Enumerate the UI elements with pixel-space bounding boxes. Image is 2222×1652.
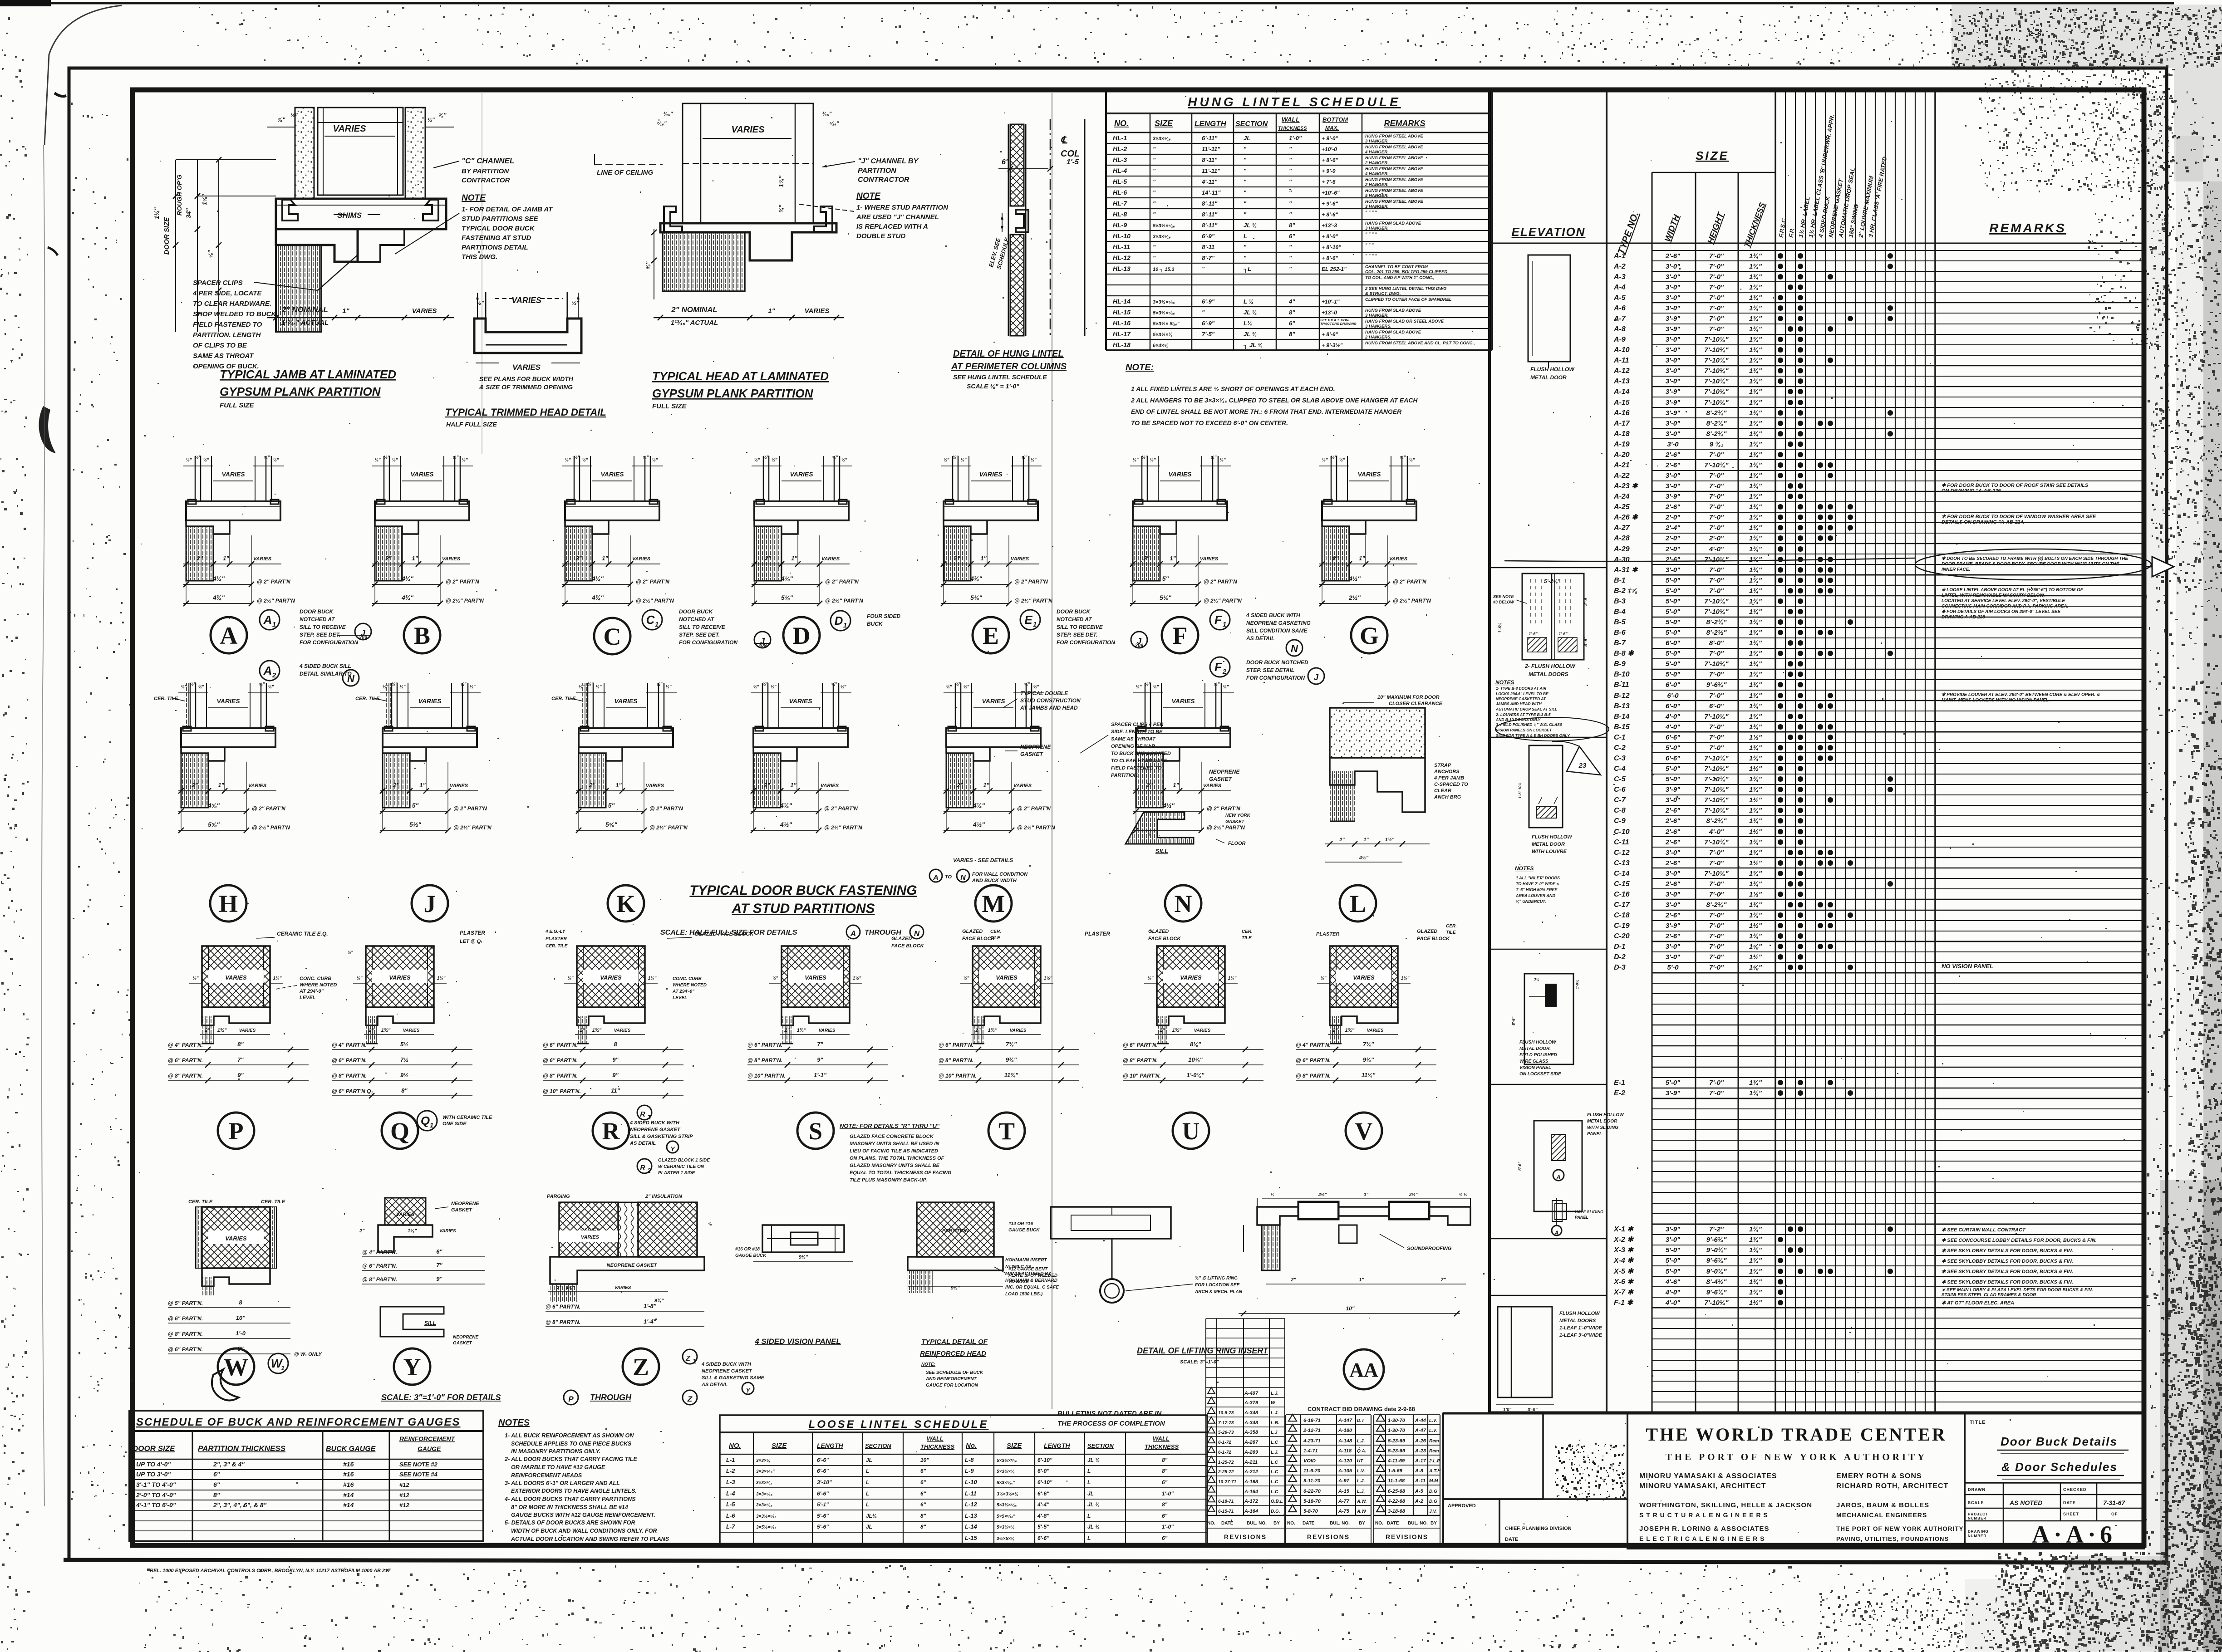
svg-text:Y: Y xyxy=(670,1145,675,1152)
svg-text:A-31 ✱: A-31 ✱ xyxy=(1613,566,1638,574)
svg-text:DETAILS ON DRAWING "A-AB-224.: DETAILS ON DRAWING "A-AB-224. xyxy=(1942,520,2025,525)
svg-text:VARIES: VARIES xyxy=(1194,1028,1211,1033)
svg-text:✱ FOR DOOR BUCK TO DOOR OF ROO: ✱ FOR DOOR BUCK TO DOOR OF ROOF STAIR SE… xyxy=(1942,483,2089,488)
svg-text:½": ½" xyxy=(392,458,398,463)
svg-text:DATE: DATE xyxy=(1303,1521,1315,1526)
svg-text:1": 1" xyxy=(602,555,608,562)
svg-text:T: T xyxy=(998,1118,1015,1145)
svg-text:E: E xyxy=(983,622,999,649)
svg-text:CER. TILE: CER. TILE xyxy=(261,1199,285,1205)
svg-text:METAL DOORS: METAL DOORS xyxy=(1559,1318,1596,1324)
svg-text:VISION PANEL: VISION PANEL xyxy=(1519,1065,1551,1070)
svg-text:½": ½" xyxy=(348,950,354,955)
svg-text:INC. OR EQUAL. C SAFE: INC. OR EQUAL. C SAFE xyxy=(1005,1285,1059,1290)
svg-text:¾" UNDERCUT.: ¾" UNDERCUT. xyxy=(1516,899,1546,904)
svg-text:½": ½" xyxy=(374,458,380,463)
svg-text:CERAMIC TILE E.Q.: CERAMIC TILE E.Q. xyxy=(277,931,328,937)
svg-text:4¼": 4¼" xyxy=(780,802,792,809)
svg-text:1": 1" xyxy=(1173,782,1179,789)
svg-text:8": 8" xyxy=(237,1041,244,1048)
svg-text:7'-0": 7'-0" xyxy=(1709,325,1724,333)
svg-text:Y: Y xyxy=(746,1387,751,1394)
svg-text:1¾": 1¾" xyxy=(592,1028,602,1033)
svg-text:COL: COL xyxy=(1061,149,1080,159)
svg-text:5×3½×¾: 5×3½×¾ xyxy=(1153,332,1172,338)
svg-text:1¾": 1¾" xyxy=(1749,1268,1762,1275)
svg-text:1¾": 1¾" xyxy=(1749,577,1762,584)
svg-text:⅝": ⅝" xyxy=(1024,682,1030,687)
svg-text:NOTES: NOTES xyxy=(1515,865,1534,872)
svg-text:A-118: A-118 xyxy=(1338,1448,1352,1454)
svg-text:1¾": 1¾" xyxy=(1749,681,1762,689)
svg-text:NOTE: FOR DETAILS "R" THRU "U: NOTE: FOR DETAILS "R" THRU "U" xyxy=(840,1123,940,1129)
svg-text:8": 8" xyxy=(1289,222,1295,229)
svg-text:½": ½" xyxy=(190,682,196,687)
svg-text:7'-10¼": 7'-10¼" xyxy=(1704,367,1729,375)
svg-text:SOUNDPROOFING: SOUNDPROOFING xyxy=(1407,1246,1452,1251)
svg-text:4 PER SIDE, LOCATE: 4 PER SIDE, LOCATE xyxy=(192,289,262,297)
svg-text:NEOPRENE: NEOPRENE xyxy=(451,1201,479,1206)
svg-text:5'-0": 5'-0" xyxy=(1666,671,1681,678)
svg-text:EMERY ROTH & SONS: EMERY ROTH & SONS xyxy=(1836,1472,1922,1480)
svg-text:CHIEF, PLANNING DIVISION: CHIEF, PLANNING DIVISION xyxy=(1505,1526,1572,1531)
svg-text:½": ½" xyxy=(1030,458,1036,463)
svg-text:FIELD FASTENED TO: FIELD FASTENED TO xyxy=(1111,765,1162,771)
svg-text:DOOR SIZE: DOOR SIZE xyxy=(133,1444,175,1453)
svg-text:5'-1": 5'-1" xyxy=(817,1501,829,1508)
svg-text:5'-6": 5'-6" xyxy=(817,1513,829,1519)
svg-text:2- LOUVERS AT TYPE B-3 B-5: 2- LOUVERS AT TYPE B-3 B-5 xyxy=(1495,712,1551,717)
svg-text:½": ½" xyxy=(587,682,593,687)
svg-text:3 HANGER.: 3 HANGER. xyxy=(1365,204,1389,209)
svg-text:6": 6" xyxy=(920,1490,926,1497)
svg-text:1¾": 1¾" xyxy=(1749,807,1762,814)
svg-text:8⅛": 8⅛" xyxy=(1190,1041,1201,1048)
svg-text:PLASTER 1 SIDE: PLASTER 1 SIDE xyxy=(658,1171,695,1176)
svg-text:THE PROCESS OF COMPLETION: THE PROCESS OF COMPLETION xyxy=(1057,1420,1165,1427)
svg-text:1¾": 1¾" xyxy=(1749,775,1762,783)
svg-text:1¾": 1¾" xyxy=(1749,1278,1762,1286)
svg-text:@ 2½" PART'N: @ 2½" PART'N xyxy=(446,598,484,604)
svg-text:JL ¼: JL ¼ xyxy=(1087,1457,1100,1463)
svg-text:1¹³⁄₁₆" ACTUAL: 1¹³⁄₁₆" ACTUAL xyxy=(671,319,718,327)
svg-text:@ 2½" PART'N: @ 2½" PART'N xyxy=(1017,824,1055,831)
svg-text:5'-0": 5'-0" xyxy=(1666,598,1681,605)
svg-text:GAUGE BUCK: GAUGE BUCK xyxy=(735,1253,767,1258)
svg-text:½": ½" xyxy=(770,685,776,690)
svg-text:1¾": 1¾" xyxy=(1749,1289,1762,1296)
svg-text:1'-5: 1'-5 xyxy=(1067,158,1079,166)
svg-text:@ 2½" PART'N: @ 2½" PART'N xyxy=(649,824,688,831)
svg-text:3'-0": 3'-0" xyxy=(1666,472,1681,480)
svg-text:7'-0": 7'-0" xyxy=(1709,252,1724,260)
svg-text:AT PERIMETER COLUMNS: AT PERIMETER COLUMNS xyxy=(951,362,1067,372)
svg-text:1½": 1½" xyxy=(853,976,861,981)
svg-text:C-5: C-5 xyxy=(1614,775,1626,783)
svg-text:N: N xyxy=(347,673,355,684)
svg-text:1- TYPE B-8 DOORS AT AIR: 1- TYPE B-8 DOORS AT AIR xyxy=(1496,686,1547,691)
svg-text:A-379: A-379 xyxy=(1244,1400,1258,1406)
svg-text:FULL SIZE: FULL SIZE xyxy=(220,402,255,409)
svg-text:C: C xyxy=(646,613,655,627)
svg-text:4'-4": 4'-4" xyxy=(1037,1501,1049,1508)
svg-text:SEE HUNG LINTEL SCHEDULE: SEE HUNG LINTEL SCHEDULE xyxy=(953,373,1047,381)
svg-text:½": ½" xyxy=(963,976,969,981)
svg-text:3½×3½×¼: 3½×3½×¼ xyxy=(997,1492,1018,1497)
svg-text:JOSEPH R. LORING & ASSOCIATES: JOSEPH R. LORING & ASSOCIATES xyxy=(1639,1525,1770,1533)
svg-text:2 HANGER.: 2 HANGER. xyxy=(1365,182,1389,187)
svg-text:WHERE NOTED: WHERE NOTED xyxy=(673,983,707,988)
svg-text:5'-0": 5'-0" xyxy=(1666,744,1681,752)
svg-text:1¾": 1¾" xyxy=(1749,284,1762,291)
svg-text:A-3: A-3 xyxy=(1613,273,1626,281)
svg-text:5×3×⁵⁄₁₆": 5×3×⁵⁄₁₆" xyxy=(997,1480,1015,1485)
svg-text:BULLETINS NOT DATED ARE IN: BULLETINS NOT DATED ARE IN xyxy=(1057,1410,1162,1417)
svg-text:A-17: A-17 xyxy=(1415,1458,1426,1464)
svg-text:3'-0": 3'-0" xyxy=(1666,263,1681,270)
svg-text:7'-0": 7'-0" xyxy=(1709,472,1724,480)
svg-text:NO.: NO. xyxy=(1114,119,1129,128)
svg-text:7'-0": 7'-0" xyxy=(1709,263,1724,270)
svg-text:JL ¼: JL ¼ xyxy=(1087,1524,1100,1530)
svg-text:½: ½ xyxy=(1271,1192,1274,1197)
svg-text:STEP. SEE DETAIL: STEP. SEE DETAIL xyxy=(1246,667,1294,673)
svg-text:6'-11": 6'-11" xyxy=(1202,135,1218,142)
svg-text:HALF FULL SIZE: HALF FULL SIZE xyxy=(446,421,497,428)
svg-text:REVISIONS: REVISIONS xyxy=(1386,1533,1428,1540)
svg-text:½": ½" xyxy=(1219,458,1225,463)
svg-text:DOOR BUCK: DOOR BUCK xyxy=(679,608,713,615)
svg-text:A-19: A-19 xyxy=(1613,441,1630,448)
svg-text:3 HANGER.: 3 HANGER. xyxy=(1365,226,1389,231)
svg-text:6'-10": 6'-10" xyxy=(1037,1479,1052,1485)
svg-text:8": 8" xyxy=(1162,1501,1168,1508)
svg-text:2 HANGER.: 2 HANGER. xyxy=(1365,161,1389,166)
svg-text:1- FOR DETAIL OF JAMB AT: 1- FOR DETAIL OF JAMB AT xyxy=(462,206,553,213)
svg-text:FACE BLOCK: FACE BLOCK xyxy=(891,943,924,949)
svg-text:A-172: A-172 xyxy=(1244,1499,1258,1504)
svg-text:A-30: A-30 xyxy=(1613,556,1630,564)
svg-text:L-8: L-8 xyxy=(965,1456,974,1463)
svg-text:1¾": 1¾" xyxy=(1749,503,1762,511)
svg-text:1¾": 1¾" xyxy=(1749,1236,1762,1244)
svg-text:SHEET: SHEET xyxy=(2063,1512,2079,1516)
svg-text:SEE PLANS FOR BUCK WIDTH: SEE PLANS FOR BUCK WIDTH xyxy=(479,375,574,382)
svg-text:4¼": 4¼" xyxy=(212,575,225,582)
svg-text:VARIES: VARIES xyxy=(1389,556,1408,562)
svg-text:E L E C T R I C A L E N G I: E L E C T R I C A L E N G I N E E R S xyxy=(1639,1535,1765,1542)
svg-text:E: E xyxy=(1024,613,1032,627)
svg-text:VARIES: VARIES xyxy=(632,556,651,562)
svg-text:A-2: A-2 xyxy=(1415,1499,1423,1504)
svg-text:BUL. NO.: BUL. NO. xyxy=(1330,1521,1350,1526)
svg-text:@ 4" PART'N.: @ 4" PART'N. xyxy=(1296,1042,1331,1048)
svg-text:LOCATED AT SERVICE LEVEL ELEV.: LOCATED AT SERVICE LEVEL ELEV. 294'-0", … xyxy=(1942,598,2065,603)
svg-text:NO.: NO. xyxy=(1375,1521,1383,1526)
svg-text:L: L xyxy=(1087,1479,1091,1485)
svg-text:FULL SIZE: FULL SIZE xyxy=(652,402,687,410)
svg-text:7'-10¼": 7'-10¼" xyxy=(1704,786,1729,794)
svg-text:A-75: A-75 xyxy=(1338,1509,1350,1514)
svg-text:9¾": 9¾" xyxy=(951,1285,960,1291)
svg-text:⅝": ⅝" xyxy=(656,682,662,687)
svg-text:4-22-68: 4-22-68 xyxy=(1387,1499,1406,1504)
svg-text:@ 10" PART'N.: @ 10" PART'N. xyxy=(747,1073,786,1079)
svg-text:2": 2" xyxy=(579,1028,585,1033)
svg-text:6'-10": 6'-10" xyxy=(1037,1457,1052,1463)
svg-text:@ 2" PART'N: @ 2" PART'N xyxy=(1393,578,1426,585)
svg-text:A-16: A-16 xyxy=(1613,409,1630,417)
svg-text:¾": ¾" xyxy=(778,205,785,213)
svg-text:L: L xyxy=(866,1479,869,1485)
svg-text:6": 6" xyxy=(920,1468,926,1474)
svg-text:2.L.P: 2.L.P xyxy=(1429,1459,1440,1464)
svg-text:5×3½×⁵⁄₁₆: 5×3½×⁵⁄₁₆ xyxy=(1153,223,1175,229)
svg-text:5": 5" xyxy=(412,802,419,809)
svg-text:HUNG FROM STEEL ABOVE: HUNG FROM STEEL ABOVE xyxy=(1365,156,1423,161)
svg-text:": " xyxy=(1244,157,1247,163)
svg-text:1½": 1½" xyxy=(1749,765,1762,773)
svg-text:7'-0": 7'-0" xyxy=(1709,315,1724,323)
svg-text:IN MASONRY PARTITIONS ONLY.: IN MASONRY PARTITIONS ONLY. xyxy=(511,1448,600,1455)
svg-text:1": 1" xyxy=(1170,555,1176,562)
svg-text:BOTTOM: BOTTOM xyxy=(1322,116,1348,123)
svg-text:1½": 1½" xyxy=(1749,922,1762,930)
svg-text:1": 1" xyxy=(342,307,349,315)
svg-text:AS DETAIL: AS DETAIL xyxy=(701,1382,728,1387)
svg-text:No.: No. xyxy=(966,1442,977,1450)
svg-text:A-269: A-269 xyxy=(1244,1450,1258,1455)
svg-text:B-15: B-15 xyxy=(1614,723,1630,731)
svg-text:VARIES: VARIES xyxy=(979,471,1003,478)
svg-text:7'-10¼": 7'-10¼" xyxy=(1704,838,1729,846)
svg-text:7'-0": 7'-0" xyxy=(1709,482,1724,490)
svg-text:3'-0": 3'-0" xyxy=(1666,796,1681,804)
svg-text:9¾": 9¾" xyxy=(799,1255,808,1260)
svg-text:NOTES: NOTES xyxy=(498,1418,530,1428)
svg-text:& Door Schedules: & Door Schedules xyxy=(2001,1460,2118,1474)
svg-text:4 HANGER.: 4 HANGER. xyxy=(1365,172,1389,176)
svg-text:B-3: B-3 xyxy=(1614,598,1626,605)
svg-text:3½×5×¼: 3½×5×¼ xyxy=(997,1536,1014,1541)
svg-text:1¾": 1¾" xyxy=(1749,692,1762,700)
svg-text:6": 6" xyxy=(213,1481,220,1488)
svg-text:½": ½" xyxy=(582,458,588,463)
svg-text:1¾": 1¾" xyxy=(1749,545,1762,553)
svg-text:@ 2" PART'N: @ 2" PART'N xyxy=(1207,805,1240,812)
svg-text:HUNG FROM STEEL ABOVE: HUNG FROM STEEL ABOVE xyxy=(1365,134,1423,139)
svg-text:A-29: A-29 xyxy=(1613,545,1630,553)
svg-text:6": 6" xyxy=(1162,1535,1168,1541)
svg-text:1¾": 1¾" xyxy=(1749,377,1762,385)
svg-text:8": 8" xyxy=(920,1524,926,1530)
svg-text:1: 1 xyxy=(1223,621,1226,628)
svg-text:3×3×⁵⁄₁₆: 3×3×⁵⁄₁₆ xyxy=(1153,234,1171,240)
svg-text:SCALE: 3"=1'-0": SCALE: 3"=1'-0" xyxy=(1180,1359,1219,1365)
svg-text:1'-1": 1'-1" xyxy=(814,1072,827,1078)
svg-text:6": 6" xyxy=(920,1479,926,1485)
svg-text:½": ½" xyxy=(195,455,201,460)
svg-text:7'-10¼": 7'-10¼" xyxy=(1704,388,1729,396)
svg-text:⅛: ⅛ xyxy=(708,1221,712,1226)
svg-text:7'-0": 7'-0" xyxy=(1709,922,1724,930)
svg-text:3'-0": 3'-0" xyxy=(1666,430,1681,438)
svg-text:A-180: A-180 xyxy=(1338,1428,1352,1433)
svg-text:CONTRACTOR: CONTRACTOR xyxy=(462,176,510,184)
svg-text:L-13: L-13 xyxy=(965,1512,978,1519)
svg-text:½": ½" xyxy=(428,117,435,123)
svg-text:A-15: A-15 xyxy=(1613,399,1630,407)
svg-text:9": 9" xyxy=(817,1056,823,1063)
svg-text:JL ¼: JL ¼ xyxy=(1087,1501,1100,1508)
svg-text:HUNG FROM STEEL ABOVE: HUNG FROM STEEL ABOVE xyxy=(1365,167,1423,172)
svg-text:L-1: L-1 xyxy=(726,1456,735,1463)
svg-text:A-14: A-14 xyxy=(1613,388,1630,396)
svg-text:+ 9'-3½": + 9'-3½" xyxy=(1322,342,1343,348)
svg-text:VARIES: VARIES xyxy=(1367,1028,1384,1033)
svg-text:½": ½" xyxy=(952,455,958,460)
svg-text:HL-5: HL-5 xyxy=(1113,178,1127,185)
svg-text:5'-0": 5'-0" xyxy=(1666,608,1681,616)
svg-text:7'-0": 7'-0" xyxy=(1709,932,1724,940)
svg-text:REVISIONS: REVISIONS xyxy=(1224,1533,1267,1540)
svg-text:JAMBS AND HEAD WITH: JAMBS AND HEAD WITH xyxy=(1496,701,1542,706)
svg-text:HUNG FROM STEEL ABOVE: HUNG FROM STEEL ABOVE xyxy=(1365,177,1423,182)
svg-text:8": 8" xyxy=(1162,1468,1168,1474)
svg-text:2'-6": 2'-6" xyxy=(1665,859,1681,867)
svg-text:3'-0": 3'-0" xyxy=(1666,273,1681,281)
svg-text:@ 2½" PART'N: @ 2½" PART'N xyxy=(1207,824,1245,831)
svg-text:STUD CONSTRUCTION: STUD CONSTRUCTION xyxy=(1020,697,1081,704)
svg-text:1": 1" xyxy=(1359,555,1365,562)
svg-text:@ 6" PART'N.: @ 6" PART'N. xyxy=(1123,1042,1158,1048)
svg-text:C-13: C-13 xyxy=(1614,859,1630,867)
svg-text:7'-0": 7'-0" xyxy=(1709,514,1724,521)
svg-text:BY: BY xyxy=(1273,1521,1280,1526)
svg-text:": " xyxy=(1244,255,1247,261)
svg-text:+ 9'-0: + 9'-0 xyxy=(1322,168,1336,174)
svg-text:7'-10¼": 7'-10¼" xyxy=(1704,346,1729,354)
svg-text:A-212: A-212 xyxy=(1244,1469,1258,1475)
svg-text:D-2: D-2 xyxy=(1614,953,1626,961)
svg-text:4'-0": 4'-0" xyxy=(1665,1299,1681,1307)
svg-text:@ 8" PART'N.: @ 8" PART'N. xyxy=(543,1073,578,1079)
svg-text:SILL: SILL xyxy=(1155,848,1168,854)
svg-text:1¾": 1¾" xyxy=(1749,838,1762,846)
svg-text:VARIES: VARIES xyxy=(439,1229,456,1234)
svg-text:4 PER JAMB: 4 PER JAMB xyxy=(1434,775,1464,781)
svg-text:VARIES: VARIES xyxy=(982,697,1005,705)
svg-text:9¾": 9¾" xyxy=(1006,1056,1017,1063)
svg-text:3'-0": 3'-0" xyxy=(1666,1236,1681,1244)
svg-text:8'-11": 8'-11" xyxy=(1202,211,1218,218)
svg-text:L-12: L-12 xyxy=(965,1501,978,1508)
svg-text:1¾": 1¾" xyxy=(1749,702,1762,710)
svg-text:LEVEL: LEVEL xyxy=(673,995,687,1000)
svg-text:CER. TILE: CER. TILE xyxy=(546,944,568,949)
svg-text:SECTION: SECTION xyxy=(1087,1442,1114,1449)
svg-text:CHECKED: CHECKED xyxy=(2063,1487,2087,1492)
svg-text:UP TO 3'-0": UP TO 3'-0" xyxy=(136,1471,171,1478)
svg-text:HL-6: HL-6 xyxy=(1113,189,1127,196)
svg-text:@ 2½" PART'N: @ 2½" PART'N xyxy=(1014,598,1052,604)
svg-text:4-23-71: 4-23-71 xyxy=(1303,1438,1321,1444)
svg-text:7'-0": 7'-0" xyxy=(1709,692,1724,700)
svg-text:3×3×¼: 3×3×¼ xyxy=(756,1458,770,1463)
svg-text:LENGTH: LENGTH xyxy=(1195,119,1227,128)
svg-text:3'-0": 3'-0" xyxy=(1666,420,1681,427)
svg-text:1¾": 1¾" xyxy=(1749,618,1762,626)
svg-text:A-198: A-198 xyxy=(1244,1479,1258,1485)
svg-text:7'-10¼": 7'-10¼" xyxy=(1704,807,1729,814)
svg-text:L.C: L.C xyxy=(1271,1490,1278,1495)
svg-text:PARTITION: PARTITION xyxy=(858,167,896,175)
svg-text:SIZE: SIZE xyxy=(1007,1442,1022,1450)
svg-text:METAL DOOR: METAL DOOR xyxy=(1530,374,1567,381)
svg-text:⅝": ⅝" xyxy=(259,682,265,687)
svg-text:A-23 ✱: A-23 ✱ xyxy=(1613,482,1638,490)
svg-text:HL-14: HL-14 xyxy=(1113,298,1131,305)
svg-text:@ 2" PART'N: @ 2" PART'N xyxy=(636,578,669,585)
svg-text:N: N xyxy=(1291,643,1298,654)
svg-text:4 SIDED BUCK SILL: 4 SIDED BUCK SILL xyxy=(299,663,351,669)
svg-text:BY PARTITION: BY PARTITION xyxy=(462,167,509,175)
svg-text:7'-0": 7'-0" xyxy=(1709,451,1724,459)
svg-text:1¾": 1¾" xyxy=(1749,252,1762,260)
svg-text:1¾": 1¾" xyxy=(1749,336,1762,343)
svg-text:2": 2" xyxy=(1332,1028,1338,1033)
svg-text:ANCHORS: ANCHORS xyxy=(1434,769,1460,775)
svg-text:NEOPRENE: NEOPRENE xyxy=(1209,769,1240,775)
svg-text:1¾": 1¾" xyxy=(1749,650,1762,657)
svg-text:FASTENING AT STUD: FASTENING AT STUD xyxy=(462,234,531,242)
svg-text:CLIPPED TO OUTER FACE OF SPAND: CLIPPED TO OUTER FACE OF SPANDREL xyxy=(1365,297,1452,302)
svg-text:5⅛": 5⅛" xyxy=(1160,594,1171,601)
svg-text:B-7: B-7 xyxy=(1614,639,1626,647)
svg-text:6'-0": 6'-0" xyxy=(1666,681,1681,689)
svg-text:⅝": ⅝" xyxy=(831,682,837,687)
svg-text:AUTOMATIC DROP SEAL AT SILL: AUTOMATIC DROP SEAL AT SILL xyxy=(1495,707,1557,711)
svg-text:HEIGHT: HEIGHT xyxy=(1706,211,1726,245)
svg-text:1¾": 1¾" xyxy=(381,1028,391,1033)
svg-text:10" MAXIMUM FOR DOOR: 10" MAXIMUM FOR DOOR xyxy=(1377,695,1440,700)
svg-text:1½": 1½" xyxy=(1749,891,1762,898)
svg-text:7'-10¼": 7'-10¼" xyxy=(1704,377,1729,385)
svg-text:TO: TO xyxy=(945,874,952,880)
svg-text:½": ½" xyxy=(198,685,204,690)
svg-text:VARIES: VARIES xyxy=(1353,974,1375,981)
svg-text:4'-1" TO 6'-0": 4'-1" TO 6'-0" xyxy=(136,1501,176,1509)
svg-text:4¼": 4¼" xyxy=(970,575,982,582)
svg-text:1¾": 1¾" xyxy=(1749,482,1762,490)
svg-text:@ 2" PART'N: @ 2" PART'N xyxy=(453,805,487,812)
svg-text:SILL: SILL xyxy=(424,1320,436,1326)
svg-text:½": ½" xyxy=(1320,976,1326,981)
svg-text:L.V.: L.V. xyxy=(1429,1418,1437,1423)
svg-text:7'-0": 7'-0" xyxy=(1709,953,1724,961)
svg-text:2'-6": 2'-6" xyxy=(1665,932,1681,940)
svg-text:ELEVATION: ELEVATION xyxy=(1512,225,1586,239)
svg-text:½": ½" xyxy=(841,458,847,463)
svg-text:SEE NOTE #2: SEE NOTE #2 xyxy=(399,1461,438,1468)
svg-text:SIDE FOR TYPE A & E BH DOORS O: SIDE FOR TYPE A & E BH DOORS ONLY xyxy=(1496,733,1570,738)
svg-text:SIZE: SIZE xyxy=(1155,119,1173,128)
svg-text:SHIMS: SHIMS xyxy=(337,211,362,220)
svg-text:HL-13: HL-13 xyxy=(1113,265,1131,272)
svg-text:L-11: L-11 xyxy=(965,1490,977,1497)
svg-text:3'-9": 3'-9" xyxy=(1666,388,1681,396)
svg-text:TILE: TILE xyxy=(990,936,1000,941)
